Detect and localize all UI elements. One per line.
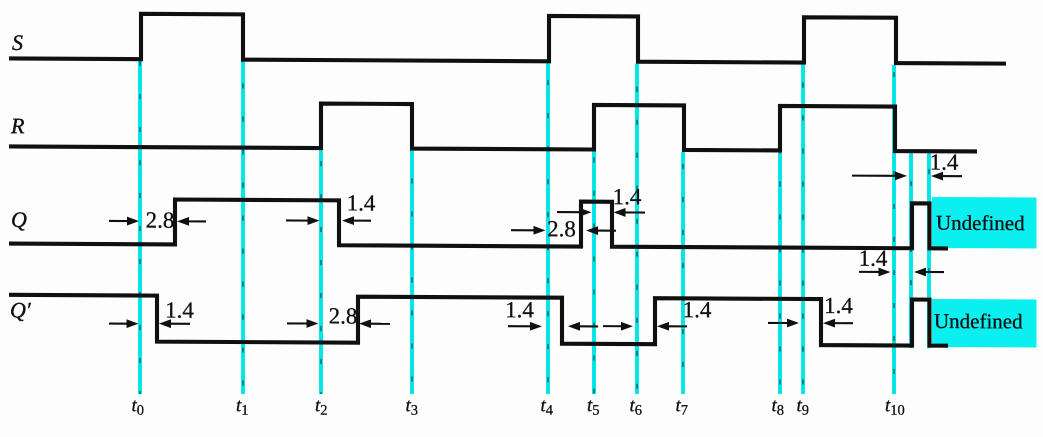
svg-text:t0: t0 <box>132 395 145 419</box>
svg-text:1.4: 1.4 <box>505 297 534 322</box>
svg-text:2.8: 2.8 <box>547 216 576 241</box>
svg-text:t9: t9 <box>797 395 810 419</box>
svg-text:1.4: 1.4 <box>930 150 959 175</box>
timing line t2 <box>319 150 323 394</box>
delay 2.8 at t4 on Q <box>511 229 537 231</box>
undefined region box Q <box>932 197 1037 249</box>
svg-text:1.4: 1.4 <box>824 293 853 318</box>
delay 1.4 at t9 on Q' <box>768 322 790 324</box>
svg-text:S: S <box>12 30 23 55</box>
timing line t4 <box>546 63 550 394</box>
timing line after t10 (second) <box>927 153 931 348</box>
svg-text:Q′: Q′ <box>10 297 32 322</box>
waveform Q <box>9 199 948 249</box>
timing line t8 <box>778 152 782 394</box>
svg-text:t8: t8 <box>772 395 785 419</box>
timing line t0 <box>138 61 142 394</box>
svg-text:t1: t1 <box>236 395 249 419</box>
waveform S <box>9 13 1006 63</box>
timing line t6 <box>635 64 639 394</box>
svg-text:1.4: 1.4 <box>859 246 888 271</box>
delay 1.4 at t0 on Q' <box>109 323 130 325</box>
timing line t5 <box>592 151 596 394</box>
svg-text:2.8: 2.8 <box>329 303 358 328</box>
timing line t3 <box>410 151 414 394</box>
delay 1.4 at t5 on Q <box>557 211 583 213</box>
svg-text:Undefined: Undefined <box>936 211 1025 235</box>
svg-text:1.4: 1.4 <box>613 184 642 209</box>
svg-text:t7: t7 <box>676 395 689 419</box>
svg-text:2.8: 2.8 <box>146 208 175 233</box>
timing line t7 <box>681 152 685 394</box>
svg-text:t5: t5 <box>587 395 600 419</box>
delay 1.4 at t6 on Q' <box>603 325 624 327</box>
svg-text:R: R <box>10 113 25 138</box>
timing line t1 <box>241 62 245 394</box>
undefined region box Q' <box>932 299 1037 348</box>
pulse width 1.4 after t10 on Q <box>852 175 898 177</box>
svg-text:t2: t2 <box>315 395 328 419</box>
svg-text:Q: Q <box>11 207 27 232</box>
timing line t9 <box>801 65 805 394</box>
delay 1.4 at t2 on Q <box>286 219 311 221</box>
svg-text:Undefined: Undefined <box>934 309 1023 333</box>
timing line after t10 (first) <box>909 153 913 348</box>
svg-text:1.4: 1.4 <box>683 297 712 322</box>
svg-text:t10: t10 <box>885 395 905 419</box>
svg-text:1.4: 1.4 <box>347 190 376 215</box>
svg-text:1.4: 1.4 <box>165 298 194 323</box>
waveform Q' <box>9 295 948 346</box>
svg-text:t4: t4 <box>541 395 554 419</box>
timing line t10 <box>892 65 896 394</box>
delay 2.8 at t2 on Q' <box>287 322 310 324</box>
waveform R <box>9 102 977 152</box>
svg-text:t3: t3 <box>406 395 419 419</box>
delay 2.8 at t0 on Q <box>109 220 130 222</box>
svg-text:t6: t6 <box>630 395 643 419</box>
